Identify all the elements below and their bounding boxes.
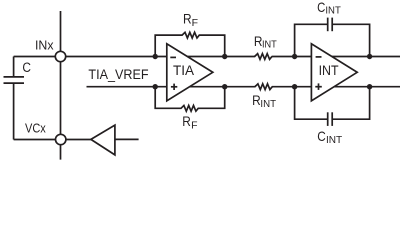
svg-text:C: C (317, 0, 325, 15)
svg-text:VCx: VCx (25, 120, 46, 135)
svg-text:INT: INT (262, 39, 277, 51)
svg-text:F: F (192, 17, 198, 29)
svg-text:INT: INT (326, 134, 343, 146)
svg-text:INT: INT (319, 62, 339, 78)
svg-text:C: C (317, 128, 326, 144)
svg-text:TIA_VREF: TIA_VREF (88, 66, 148, 82)
svg-text:INT: INT (325, 5, 341, 17)
svg-text:R: R (183, 11, 192, 27)
svg-text:R: R (182, 113, 191, 129)
svg-text:TIA: TIA (173, 62, 195, 78)
svg-text:INx: INx (35, 38, 54, 53)
svg-text:INT: INT (260, 98, 276, 110)
svg-text:C: C (22, 60, 31, 75)
svg-text:F: F (191, 119, 197, 131)
